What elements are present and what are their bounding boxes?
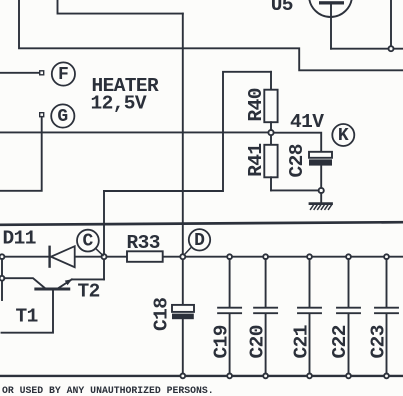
node D bbox=[189, 229, 210, 250]
svg-text:C23: C23 bbox=[368, 325, 390, 358]
terminal F square bbox=[40, 71, 44, 75]
resistor R40 bbox=[270, 72, 272, 90]
wire R41 bottom to C28 bottom node bbox=[271, 189, 321, 191]
svg-text:G: G bbox=[57, 107, 68, 127]
node at left edge on rail bbox=[0, 254, 4, 259]
svg-text:D: D bbox=[194, 231, 205, 251]
svg-text:C22: C22 bbox=[329, 325, 351, 358]
wire node C riser below rail bbox=[103, 257, 105, 280]
capacitor C21 bbox=[307, 254, 312, 259]
wire border bus y224 bbox=[0, 222, 403, 225]
svg-text:F: F bbox=[58, 65, 69, 85]
node C bbox=[77, 230, 99, 252]
node top-right junction bbox=[389, 46, 394, 51]
node C junction bbox=[102, 254, 107, 259]
wire C28 bottom lead bbox=[320, 166, 322, 188]
node F bbox=[52, 62, 75, 85]
wire T1 base loop bbox=[2, 290, 54, 333]
leader to node D bbox=[184, 248, 191, 255]
wire 41V node to C28 top bbox=[271, 133, 321, 152]
svg-text:T2: T2 bbox=[78, 281, 100, 303]
terminal G square bbox=[40, 113, 44, 117]
wire left drop to transistor bbox=[1, 259, 3, 300]
svg-text:C19: C19 bbox=[211, 325, 233, 358]
wire from node C riser up and over to R40 top bbox=[104, 72, 271, 191]
transistor T2 emitter with arrow bbox=[59, 279, 72, 288]
svg-text:R41: R41 bbox=[245, 143, 267, 176]
wire main rail y257 bbox=[0, 256, 403, 258]
capacitor C18 plates bbox=[172, 305, 194, 312]
resistor R33 bbox=[127, 251, 163, 261]
capacitor C23 bbox=[384, 254, 389, 259]
wire from top x57 across to long vertical bbox=[58, 0, 183, 14]
svg-text:D11: D11 bbox=[3, 228, 36, 250]
capacitor C20 bbox=[263, 254, 268, 259]
svg-text:41V: 41V bbox=[290, 111, 324, 133]
svg-text:C28: C28 bbox=[286, 144, 308, 177]
svg-text:12,5V: 12,5V bbox=[91, 93, 147, 115]
svg-text:C21: C21 bbox=[291, 325, 313, 358]
wire top-left vertical/horizontal stepping to right edge bbox=[19, 0, 403, 70]
wire terminal F lead bbox=[0, 72, 40, 74]
resistor R41 bbox=[270, 135, 272, 145]
wire T2 collector lead bbox=[4, 278, 44, 288]
node C28/ground junction bbox=[319, 188, 324, 193]
tube V5 envelope bbox=[309, 0, 352, 17]
svg-text:OR USED BY ANY UNAUTHORIZED PE: OR USED BY ANY UNAUTHORIZED PERSONS. bbox=[2, 385, 214, 396]
wire long vertical bus x183 bbox=[182, 14, 184, 376]
wire to ground bbox=[320, 193, 322, 202]
svg-text:C18: C18 bbox=[151, 298, 173, 331]
leader to node C bbox=[96, 248, 104, 255]
transistor T2 base bar bbox=[36, 288, 69, 291]
diode D11 cathode bar bbox=[48, 247, 50, 267]
wire T2 emitter to node C riser bbox=[72, 278, 104, 280]
node C18 bottom bbox=[180, 374, 185, 379]
svg-text:R40: R40 bbox=[245, 88, 267, 121]
capacitor C28 plates bbox=[309, 152, 332, 158]
capacitor C22 bbox=[346, 254, 351, 259]
wire tube anode to right edge bbox=[331, 48, 403, 50]
svg-text:K: K bbox=[338, 126, 349, 146]
svg-text:U5: U5 bbox=[271, 0, 293, 16]
node at left collector tap bbox=[0, 276, 4, 281]
node D junction bbox=[180, 254, 185, 259]
wire node C riser vertical bbox=[103, 191, 105, 257]
node K bbox=[332, 124, 354, 146]
ground chassis symbol bbox=[310, 202, 332, 205]
svg-text:C20: C20 bbox=[247, 325, 269, 358]
svg-text:T1: T1 bbox=[16, 306, 38, 328]
diode D11 triangle bbox=[51, 246, 75, 267]
capacitor C19 bbox=[227, 254, 232, 259]
wire top-right vertical into junction bbox=[390, 0, 392, 49]
wire heater supply horizontal y132 bbox=[0, 131, 271, 133]
wire bottom rail y376 bbox=[0, 375, 403, 377]
svg-text:C: C bbox=[82, 232, 93, 252]
node junction R40/R41 bbox=[268, 130, 273, 135]
node G bbox=[51, 104, 74, 127]
wire tube lead bbox=[330, 5, 332, 49]
wire terminal G down and to left edge bbox=[0, 117, 42, 191]
tube plate bar bbox=[319, 1, 344, 4]
